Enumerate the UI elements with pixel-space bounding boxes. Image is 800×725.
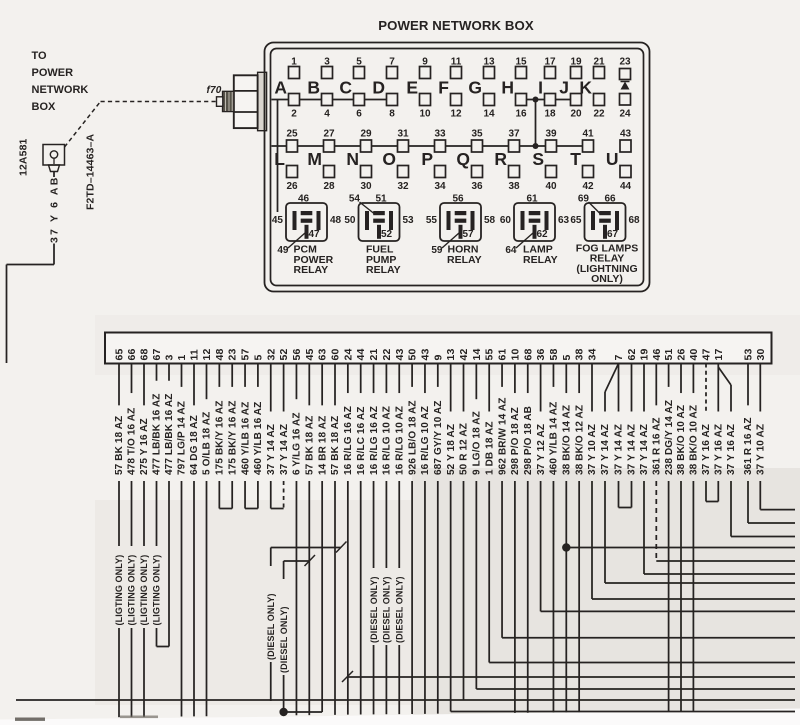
wire 37 Y 6 AB label (49, 176, 61, 243)
svg-text:477 LB/BK 16 AZ: 477 LB/BK 16 AZ (164, 394, 175, 475)
svg-text:56: 56 (452, 194, 464, 205)
row1 bus wire H-J (521, 99, 576, 101)
svg-text:BOX: BOX (32, 101, 57, 113)
svg-text:55: 55 (484, 349, 496, 361)
relay K3 pin 57 (463, 229, 475, 240)
svg-text:30: 30 (755, 349, 767, 361)
svg-text:ONLY): ONLY) (591, 273, 623, 285)
svg-text:22: 22 (381, 349, 393, 361)
wire terminal 50 926 LB/O 18 AZ (407, 364, 418, 714)
svg-text:14 BR 18 AZ: 14 BR 18 AZ (317, 416, 328, 475)
relay K3 pin 55 (426, 215, 438, 226)
terminal N pins 29/30 (346, 129, 372, 193)
svg-text:R: R (494, 149, 507, 169)
caption HORN RELAY (447, 244, 482, 266)
wire terminal 62 37 Y 14 AZ (jumper to 7) (619, 364, 638, 508)
wire terminal 52 37 Y 14 AZ (jumper right leg) (271, 364, 290, 509)
svg-text:64: 64 (505, 245, 517, 256)
svg-text:37 Y 14 AZ: 37 Y 14 AZ (639, 424, 650, 475)
svg-text:66: 66 (126, 349, 138, 361)
relay K3 horn relay box (440, 203, 481, 241)
svg-text:RELAY: RELAY (294, 264, 329, 276)
svg-text:16 R/LG 16 AZ: 16 R/LG 16 AZ (343, 406, 354, 475)
relay K5 pin 69 with leader (578, 194, 600, 214)
wire terminal 19 37 Y 14 AZ (turns right) (639, 364, 795, 575)
svg-text:56: 56 (291, 349, 303, 361)
svg-text:57: 57 (240, 349, 252, 361)
bus drop to relay pin 45 (277, 100, 279, 213)
svg-text:H: H (501, 78, 514, 98)
svg-text:12: 12 (201, 349, 213, 361)
svg-text:58: 58 (484, 215, 496, 226)
wire terminal 22 16 R/LG 10 AZ (diesel only) (382, 364, 393, 715)
svg-text:298 P/O 18 AB: 298 P/O 18 AB (523, 406, 534, 475)
svg-text:(DIESEL ONLY): (DIESEL ONLY) (394, 576, 404, 643)
svg-text:43: 43 (419, 349, 431, 361)
svg-text:(LIGTING ONLY): (LIGTING ONLY) (114, 555, 124, 626)
relay K4 pin 61 (526, 194, 538, 205)
svg-text:460 Y/LB 16 AZ: 460 Y/LB 16 AZ (253, 402, 264, 475)
relay K4 pin 63 (558, 215, 570, 226)
terminal M pins 27/28 (307, 129, 335, 193)
svg-text:51: 51 (375, 194, 387, 205)
relay K5 pin 67 (607, 229, 619, 240)
ground bus line across page bottom (16, 699, 795, 701)
svg-text:4: 4 (324, 109, 330, 120)
wire terminal 30 37 Y 10 AZ (turns right) (756, 364, 796, 510)
wire terminal 14 9 LG/O 18 AZ (turns right) (472, 364, 795, 690)
relay K2 fuel pump relay box (359, 203, 400, 241)
svg-text:67: 67 (151, 349, 163, 361)
svg-text:1 DB 18 AZ: 1 DB 18 AZ (484, 421, 495, 475)
svg-text:12A581: 12A581 (18, 138, 30, 176)
svg-text:(DIESEL ONLY): (DIESEL ONLY) (279, 606, 289, 673)
svg-text:9 LG/O 18 AZ: 9 LG/O 18 AZ (472, 411, 483, 475)
wire terminal 68 298 P/O 18 AB (523, 364, 534, 713)
svg-text:36: 36 (471, 181, 483, 192)
svg-text:37 Y 16 AZ: 37 Y 16 AZ (701, 424, 712, 475)
wire terminal 43 16 R/LG 10 AZ (diesel only) (394, 364, 405, 715)
svg-text:12: 12 (450, 109, 462, 120)
bottom page edge smudges (15, 716, 158, 721)
svg-text:35: 35 (471, 129, 483, 140)
svg-text:36: 36 (535, 349, 547, 361)
svg-text:43: 43 (620, 129, 632, 140)
svg-text:37 Y 14 AZ: 37 Y 14 AZ (279, 424, 290, 475)
svg-text:51: 51 (663, 349, 675, 361)
svg-text:26: 26 (676, 349, 688, 361)
svg-text:45: 45 (304, 349, 316, 361)
svg-text:61: 61 (497, 349, 509, 361)
svg-text:64 DG 18 AZ: 64 DG 18 AZ (189, 415, 200, 475)
svg-text:16 R/LC 16 AZ: 16 R/LC 16 AZ (356, 407, 367, 475)
svg-text:14: 14 (471, 349, 483, 361)
scan shading lower mid (95, 500, 412, 705)
svg-text:50 R 12 AZ: 50 R 12 AZ (459, 423, 470, 475)
terminal S pins 39/40 (532, 129, 557, 193)
diesel-only branch wire A with continuation mark (266, 542, 347, 702)
wire terminal 65 57 BK 18 AZ (lighting only) (114, 364, 125, 718)
wire pin18 to row2 (535, 100, 537, 147)
svg-text:(LIGTING ONLY): (LIGTING ONLY) (152, 555, 162, 626)
splice dot to terminal 63 wire (279, 708, 322, 716)
svg-text:43: 43 (394, 349, 406, 361)
connector C126 symbol (43, 145, 65, 172)
relay K2 pin 52 (381, 229, 393, 240)
wire terminal 34 37 Y 10 AZ (turns right) (587, 364, 795, 600)
svg-text:31: 31 (397, 129, 409, 140)
svg-text:50: 50 (344, 215, 356, 226)
bolt terminal f70 on box (217, 72, 267, 130)
wire terminal 17 branch 37 Y 16 AZ (turns right) (726, 385, 795, 537)
wire terminal 21 16 R/LG 16 AZ (diesel only) (369, 364, 380, 715)
wire terminal 12 5 O/LB 18 AZ (202, 364, 213, 717)
svg-text:59: 59 (431, 245, 443, 256)
terminal C pins 5/6 (339, 57, 364, 120)
wire terminal 51 238 DG/Y 14 AZ (664, 364, 675, 712)
svg-text:40: 40 (545, 181, 557, 192)
svg-text:P: P (421, 149, 433, 169)
wire connector down to corner (53, 172, 55, 265)
caption FOG LAMPS RELAY LIGHTNING ONLY (576, 243, 638, 286)
relay K4 pin 62 (537, 229, 549, 240)
wire terminal 7 straight leg 37 Y 14 AZ (614, 364, 625, 508)
svg-text:53: 53 (403, 215, 415, 226)
svg-text:M: M (307, 149, 322, 169)
terminal Q pins 35/36 (456, 129, 483, 193)
svg-text:23: 23 (227, 349, 239, 361)
svg-text:38 BK/O 14 AZ: 38 BK/O 14 AZ (562, 405, 573, 475)
bus feed line with continuation mark (diesel circuits) (342, 671, 795, 682)
terminal T pins 41/42 (570, 129, 594, 193)
svg-text:Q: Q (456, 149, 470, 169)
svg-text:26: 26 (286, 181, 298, 192)
svg-text:C: C (339, 78, 352, 98)
relay K1 pin 45 (272, 215, 284, 226)
power network box outer border (265, 43, 650, 292)
wire terminal 26 38 BK/O 10 AZ (676, 364, 687, 712)
svg-text:D: D (372, 78, 385, 98)
wire terminal 43 16 R/LG 10 AZ (420, 364, 431, 714)
svg-text:50: 50 (407, 349, 419, 361)
relay K4 pin 60 (500, 215, 512, 226)
svg-text:29: 29 (360, 129, 372, 140)
terminal I pins 17/18 (538, 57, 556, 120)
svg-text:F: F (438, 78, 449, 98)
svg-text:O: O (382, 149, 396, 169)
wire terminal 45 57 BK 18 AZ (305, 364, 316, 716)
svg-text:48: 48 (330, 215, 342, 226)
svg-text:687 GY/Y 10 AZ: 687 GY/Y 10 AZ (433, 401, 444, 476)
svg-text:19: 19 (639, 349, 651, 361)
svg-text:J: J (559, 78, 569, 98)
wire corner to left margin (7, 265, 55, 364)
svg-text:63: 63 (558, 215, 570, 226)
svg-text:34: 34 (587, 349, 599, 361)
label 12A581 (18, 138, 30, 176)
svg-text:G: G (468, 78, 482, 98)
svg-text:66: 66 (604, 194, 616, 205)
svg-text:238 DG/Y 14 AZ: 238 DG/Y 14 AZ (664, 400, 675, 475)
svg-text:37 Y 10 AZ: 37 Y 10 AZ (587, 424, 598, 475)
wire terminal 53 361 R 16 AZ (turns right) (743, 364, 795, 524)
note TO POWER NETWORK BOX (32, 50, 89, 113)
svg-text:F2TD–14463–A: F2TD–14463–A (85, 134, 97, 210)
wire terminal 47 37 Y 16 AZ (dashed stub, jumper leg) (701, 364, 712, 502)
svg-text:60: 60 (500, 215, 512, 226)
wire terminal 67 477 LB/BK 16 AZ (lighting only, loop leg) (152, 364, 163, 647)
svg-text:797 LG/P 14 AZ: 797 LG/P 14 AZ (177, 401, 188, 475)
svg-text:38 BK/O 10 AZ: 38 BK/O 10 AZ (676, 405, 687, 475)
svg-text:3: 3 (164, 355, 176, 361)
svg-text:460 Y/LB 14 AZ: 460 Y/LB 14 AZ (549, 402, 560, 475)
diesel-only branch wire B with continuation mark (279, 555, 315, 712)
svg-text:6: 6 (356, 109, 362, 120)
svg-text:38: 38 (574, 349, 586, 361)
relay K1 pin 47 (309, 229, 321, 240)
svg-text:S: S (532, 149, 544, 169)
wire terminal 44 16 R/LC 16 AZ (356, 364, 367, 715)
svg-text:16 R/LG 10 AZ: 16 R/LG 10 AZ (394, 406, 405, 475)
svg-text:RELAY: RELAY (447, 254, 482, 266)
svg-text:65: 65 (570, 215, 582, 226)
relay K2 pin 51 (375, 194, 387, 205)
svg-text:45: 45 (272, 215, 284, 226)
svg-text:460 Y/LB 16 AZ: 460 Y/LB 16 AZ (240, 402, 251, 475)
svg-text:38: 38 (508, 181, 520, 192)
svg-text:8: 8 (389, 109, 395, 120)
svg-text:28: 28 (323, 181, 335, 192)
terminal J pins 19/20 (559, 57, 582, 120)
relay K1 pin 48 (330, 215, 342, 226)
svg-text:39: 39 (545, 129, 557, 140)
svg-text:962 BR/W 14 AZ: 962 BR/W 14 AZ (497, 398, 508, 475)
svg-text:20: 20 (570, 109, 582, 120)
wire terminal 46 361 R 16 AZ (dashed, turns right) (652, 364, 796, 562)
svg-text:T: T (570, 149, 581, 169)
relay K3 pin 58 (484, 215, 496, 226)
svg-text:POWER NETWORK BOX: POWER NETWORK BOX (378, 18, 534, 33)
svg-text:A: A (274, 78, 287, 98)
svg-text:2: 2 (291, 109, 297, 120)
wire terminal 11 64 DG 18 AZ (189, 364, 200, 717)
wire terminal 63 14 BR 18 AZ (down to splice line) (317, 364, 328, 713)
svg-text:57 BK 18 AZ: 57 BK 18 AZ (114, 416, 125, 475)
power network box inner border (271, 49, 644, 286)
wire terminal 58 460 Y/LB 14 AZ (549, 364, 560, 713)
svg-text:55: 55 (426, 215, 438, 226)
row1 bus wire A-D (272, 99, 393, 101)
svg-text:65: 65 (114, 349, 126, 361)
svg-text:f70: f70 (207, 85, 222, 96)
svg-text:I: I (538, 78, 543, 98)
svg-text:57 BK 18 AZ: 57 BK 18 AZ (330, 416, 341, 475)
relay K2 pin 53 (403, 215, 415, 226)
wire terminal 36 37 Y 12 AZ (turns right) (536, 364, 795, 612)
svg-text:L: L (274, 149, 285, 169)
wire terminal 42 50 R 12 AZ (459, 364, 470, 701)
svg-text:41: 41 (582, 129, 594, 140)
relay K2 pin 54 with leader (349, 194, 374, 214)
connector C1 bus box (105, 333, 772, 364)
wire terminal 3 477 LB/BK 16 AZ (loop leg) (157, 364, 176, 647)
svg-text:14: 14 (483, 109, 495, 120)
caption PCM POWER RELAY (294, 244, 334, 276)
wire terminal 5 38 BK/O 14 AZ (with splice) (562, 364, 573, 713)
wire terminal 5 460 Y/LB 16 AZ (jumper right leg) (245, 364, 264, 509)
svg-text:5: 5 (561, 355, 573, 361)
svg-text:5 O/LB 18 AZ: 5 O/LB 18 AZ (202, 412, 213, 475)
wire terminal 23 175 BK/Y 16 AZ (jumper right leg) (219, 364, 238, 509)
wire terminal 38 38 BK/O 12 AZ (574, 364, 585, 713)
svg-text:10: 10 (509, 349, 521, 361)
wire terminal 48 175 BK/Y 16 AZ (jumper left leg) (215, 364, 226, 509)
scan white page bottom edge (0, 709, 800, 725)
svg-text:60: 60 (330, 349, 342, 361)
svg-text:62: 62 (626, 349, 638, 361)
wire terminal 40 38 BK/O 10 AZ (689, 364, 700, 711)
svg-text:38 BK/O 12 AZ: 38 BK/O 12 AZ (574, 405, 585, 475)
svg-text:57 BK 18 AZ: 57 BK 18 AZ (305, 416, 316, 475)
terminal P pins 33/34 (421, 129, 446, 193)
terminal E pins 9/10 (406, 57, 431, 120)
svg-text:361 R 16 AZ: 361 R 16 AZ (743, 417, 754, 475)
relay K5 pin 66 (604, 194, 616, 205)
svg-text:16 R/LG 10 AZ: 16 R/LG 10 AZ (382, 406, 393, 475)
splice dot and feed line right (562, 543, 795, 551)
svg-text:62: 62 (537, 229, 549, 240)
wire terminal 1 797 LG/P 14 AZ (177, 364, 188, 717)
svg-text:44: 44 (355, 349, 367, 361)
scan shading bus strip (95, 315, 800, 375)
svg-text:10: 10 (419, 109, 431, 120)
terminal U pins 43/44 (606, 129, 632, 193)
label f70 (207, 85, 222, 96)
svg-text:61: 61 (526, 194, 538, 205)
svg-text:RELAY: RELAY (523, 254, 558, 266)
svg-text:37 Y 14 AZ: 37 Y 14 AZ (627, 424, 638, 475)
svg-text:B: B (307, 78, 320, 98)
svg-text:926 LB/O 18 AZ: 926 LB/O 18 AZ (407, 400, 418, 475)
svg-text:(DIESEL ONLY): (DIESEL ONLY) (266, 593, 276, 660)
terminal B pins 3/4 (307, 57, 332, 120)
svg-text:32: 32 (397, 181, 409, 192)
svg-text:57: 57 (463, 229, 475, 240)
wire terminal 55 1 DB 18 AZ (turns right) (484, 364, 795, 663)
svg-text:44: 44 (620, 181, 632, 192)
relay K3 pin 59 with leader (431, 233, 459, 256)
terminal A pins 1/2 (274, 57, 299, 120)
svg-text:21: 21 (368, 349, 380, 361)
svg-text:46: 46 (298, 194, 310, 205)
svg-text:37 Y 14 AZ: 37 Y 14 AZ (614, 424, 625, 475)
svg-text:37 Y 16 AZ: 37 Y 16 AZ (726, 424, 737, 475)
relay K4 pin 64 with leader (505, 233, 533, 256)
svg-text:(DIESEL ONLY): (DIESEL ONLY) (382, 576, 392, 643)
svg-text:13: 13 (445, 349, 457, 361)
relay K2 pin 50 (344, 215, 356, 226)
svg-text:49: 49 (277, 245, 289, 256)
svg-text:22: 22 (593, 109, 605, 120)
svg-text:175 BK/Y 16 AZ: 175 BK/Y 16 AZ (227, 401, 238, 476)
wire terminal 9 687 GY/Y 10 AZ (433, 364, 444, 714)
svg-text:47: 47 (309, 229, 321, 240)
dashed wire connector to f70 bolt (65, 102, 218, 148)
svg-text:40: 40 (688, 349, 700, 361)
svg-text:11: 11 (189, 349, 201, 360)
label F2TD-14463-A (85, 134, 97, 210)
svg-text:(LIGTING ONLY): (LIGTING ONLY) (139, 555, 149, 626)
svg-text:16: 16 (515, 109, 527, 120)
caption LAMP RELAY (523, 244, 558, 266)
svg-text:9: 9 (432, 355, 444, 361)
svg-text:298 P/O 18 AZ: 298 P/O 18 AZ (510, 407, 521, 475)
terminal O pins 31/32 (382, 129, 409, 193)
terminal K pins 21/22 (579, 57, 605, 120)
wire terminal 32 37 Y 14 AZ (jumper left leg) (266, 364, 277, 509)
relay K1 PCM power relay box (286, 203, 327, 241)
terminal H pins 15/16 (501, 57, 527, 120)
svg-text:TO: TO (32, 50, 48, 62)
wire terminal 60 57 BK 18 AZ (330, 364, 341, 715)
diode column pins 23/24 (619, 57, 631, 120)
svg-text:361 R 16 AZ: 361 R 16 AZ (652, 417, 663, 475)
svg-text:46: 46 (651, 349, 663, 361)
svg-text:477 LB/BK 16 AZ: 477 LB/BK 16 AZ (152, 394, 163, 475)
relay K3 pin 56 (452, 194, 464, 205)
svg-text:37 Y 10 AZ: 37 Y 10 AZ (756, 424, 767, 475)
terminal F pins 11/12 (438, 57, 462, 120)
wire terminal 68 275 Y 16 AZ (lighting only) (139, 364, 150, 717)
svg-text:47: 47 (701, 349, 713, 361)
svg-text:37 Y 12 AZ: 37 Y 12 AZ (536, 424, 547, 475)
svg-text:58: 58 (548, 349, 560, 361)
svg-text:68: 68 (629, 215, 641, 226)
bus terminal numbers (114, 349, 767, 361)
svg-text:17: 17 (713, 349, 725, 361)
svg-text:42: 42 (458, 349, 470, 361)
svg-text:68: 68 (522, 349, 534, 361)
wire terminal 61 962 BR/W 14 AZ (turns right) (497, 364, 795, 638)
terminal G pins 13/14 (468, 57, 495, 120)
row2 bus wire L-T (272, 145, 594, 147)
svg-text:478 T/O 16 AZ: 478 T/O 16 AZ (127, 408, 138, 475)
caption FUEL PUMP RELAY (366, 244, 401, 276)
svg-text:63: 63 (317, 349, 329, 361)
svg-text:16 R/LG 10 AZ: 16 R/LG 10 AZ (420, 406, 431, 475)
svg-text:175 BK/Y 16 AZ: 175 BK/Y 16 AZ (215, 401, 226, 476)
svg-text:N: N (346, 149, 359, 169)
svg-text:32: 32 (265, 349, 277, 361)
svg-text:37 Y 14 AZ: 37 Y 14 AZ (266, 424, 277, 475)
svg-text:37 Y 16 AZ: 37 Y 16 AZ (714, 424, 725, 475)
svg-text:5: 5 (252, 355, 264, 361)
junction dot row2 node S (533, 143, 539, 149)
svg-text:E: E (406, 78, 418, 98)
relay K5 fog lamps relay box (585, 203, 626, 241)
svg-text:16 R/LG 16 AZ: 16 R/LG 16 AZ (369, 406, 380, 475)
svg-text:23: 23 (619, 57, 631, 68)
svg-text:27: 27 (323, 129, 335, 140)
svg-text:25: 25 (286, 129, 298, 140)
title POWER NETWORK BOX (378, 18, 534, 33)
svg-text:7: 7 (613, 355, 625, 361)
svg-text:34: 34 (434, 181, 446, 192)
terminal R pins 37/38 (494, 129, 520, 193)
scan shading lower right (412, 468, 800, 718)
wire terminal 57 460 Y/LB 16 AZ (jumper left leg) (240, 364, 251, 509)
svg-text:(LIGTING ONLY): (LIGTING ONLY) (127, 555, 137, 626)
